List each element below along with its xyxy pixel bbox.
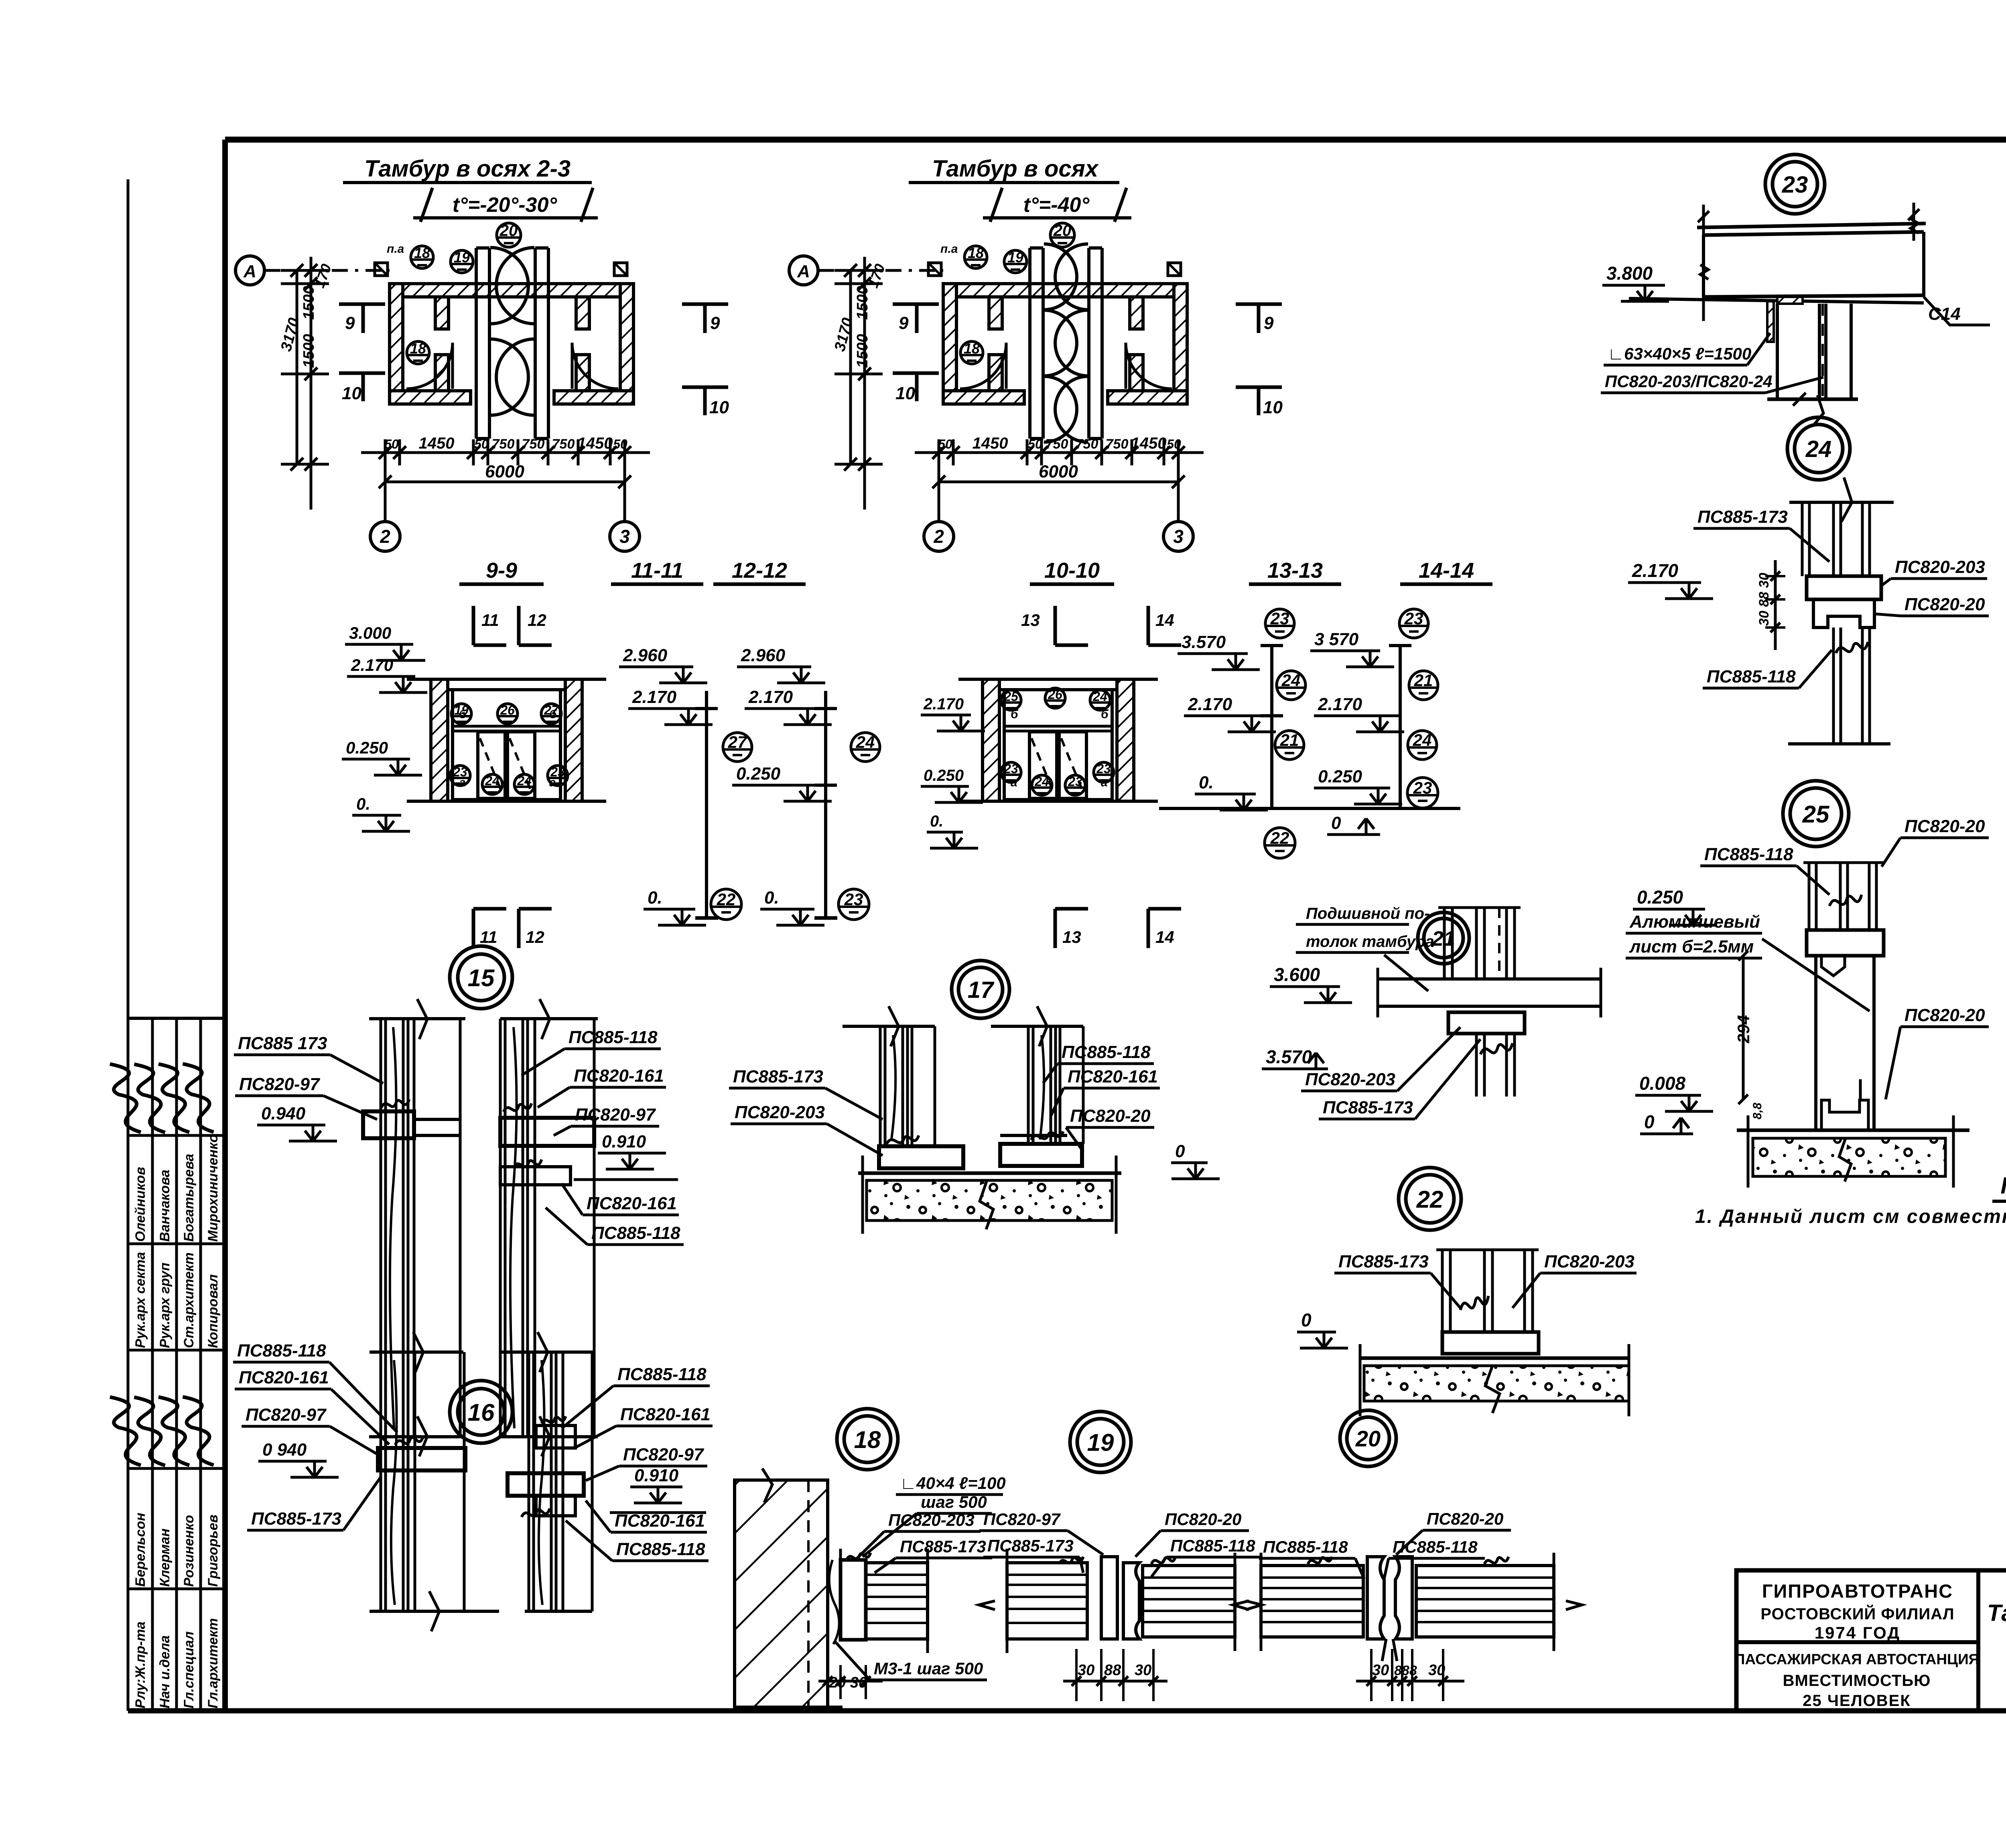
svg-text:А: А [243, 262, 256, 281]
levels 12-12 circles [760, 733, 880, 925]
detail circle 25 [1783, 781, 1849, 847]
svg-text:15: 15 [468, 965, 495, 991]
levels 12-12 [713, 558, 837, 918]
svg-text:8,8: 8,8 [1751, 1103, 1764, 1119]
svg-text:ПС885-118: ПС885-118 [1170, 1536, 1255, 1555]
svg-text:30: 30 [1372, 1662, 1389, 1679]
svg-text:19: 19 [1087, 1429, 1114, 1456]
plan circled marks [387, 222, 521, 364]
svg-text:ПС820-161: ПС820-161 [574, 1066, 664, 1086]
svg-text:1500: 1500 [300, 286, 317, 320]
svg-text:∟40×4 ℓ=100: ∟40×4 ℓ=100 [900, 1474, 1006, 1493]
svg-text:11-11: 11-11 [631, 558, 683, 583]
svg-text:Тамбур в осях 2-3: Тамбур в осях 2-3 [364, 156, 571, 182]
svg-text:27: 27 [544, 703, 559, 717]
svg-text:0.008: 0.008 [1639, 1073, 1686, 1094]
svg-text:9: 9 [345, 313, 355, 333]
svg-text:п.а: п.а [387, 242, 404, 256]
svg-text:1500: 1500 [300, 334, 317, 368]
svg-text:50: 50 [384, 437, 399, 451]
svg-text:13-13: 13-13 [1267, 558, 1323, 583]
svg-text:0: 0 [1175, 1141, 1185, 1161]
svg-text:2: 2 [380, 526, 390, 547]
svg-text:20: 20 [1355, 1426, 1381, 1451]
axis anchor squares [375, 263, 627, 276]
svg-text:Примечания: Примечания [2001, 1173, 2006, 1199]
svg-text:Гл.архитект: Гл.архитект [205, 1618, 221, 1708]
svg-text:Алюминиевый: Алюминиевый [1629, 912, 1760, 932]
svg-text:0.: 0. [648, 888, 662, 908]
svg-text:27: 27 [728, 733, 747, 751]
svg-text:17: 17 [968, 977, 995, 1003]
plan vestibule axes 2-3 (t=-40) [789, 222, 1283, 551]
bottom dimension chain [361, 435, 650, 522]
svg-text:ПС820-20: ПС820-20 [1904, 816, 1985, 836]
svg-text:21: 21 [1280, 731, 1299, 749]
svg-text:Рук.арх секта: Рук.арх секта [133, 1252, 148, 1348]
svg-text:1450: 1450 [973, 435, 1008, 452]
axis circles 2 3 [924, 522, 1193, 551]
svg-text:13: 13 [1062, 928, 1081, 946]
svg-text:20: 20 [499, 222, 518, 240]
svg-text:ПС885-118: ПС885-118 [1707, 667, 1796, 686]
svg-text:0.: 0. [1199, 773, 1214, 792]
svg-text:6000: 6000 [1039, 462, 1078, 481]
svg-text:ПС820-97: ПС820-97 [575, 1105, 656, 1125]
svg-text:Копировал: Копировал [205, 1274, 221, 1348]
levels 11-11 column [619, 646, 718, 918]
detail 23 labels [1601, 263, 1990, 393]
section 10-10 title [1030, 558, 1114, 584]
title block [1736, 1570, 2006, 1711]
svg-text:ПС885-173: ПС885-173 [1338, 1252, 1429, 1271]
svg-text:1450: 1450 [1131, 435, 1167, 452]
svg-text:1500: 1500 [854, 286, 871, 320]
svg-text:11: 11 [481, 611, 499, 630]
svg-text:t°=-40°: t°=-40° [1023, 193, 1090, 217]
svg-text:10: 10 [895, 384, 915, 403]
detail 17 mullions on slab [843, 1006, 1121, 1234]
svg-text:3 570: 3 570 [1314, 630, 1359, 649]
svg-text:2.170: 2.170 [1318, 695, 1362, 714]
svg-text:Берельсон: Берельсон [133, 1513, 148, 1587]
svg-text:Мирохиниченко: Мирохиниченко [205, 1134, 221, 1242]
door jambs and leaves [406, 248, 618, 439]
svg-text:0.940: 0.940 [261, 1104, 306, 1123]
detail 21 ceiling label [1296, 905, 1434, 991]
plan walls [943, 284, 1187, 404]
svg-text:0.250: 0.250 [346, 738, 388, 757]
svg-text:Богатырева: Богатырева [181, 1154, 197, 1242]
svg-text:2.170: 2.170 [632, 687, 677, 707]
notes text line 1 [1695, 1206, 2006, 1227]
svg-text:22: 22 [1416, 1186, 1444, 1213]
svg-text:0.: 0. [930, 812, 943, 830]
svg-text:Тамбур в осях: Тамбур в осях [932, 156, 1099, 182]
detail 19 labels and dims [979, 1510, 1263, 1701]
door jambs and leaves [960, 244, 1172, 442]
svg-text:23: 23 [550, 765, 565, 779]
svg-text:23: 23 [844, 890, 863, 909]
svg-text:Ст.архитект: Ст.архитект [181, 1253, 197, 1348]
detail 21 slab and mullion [1378, 908, 1601, 1097]
svg-text:ПС885-173: ПС885-173 [987, 1536, 1074, 1555]
svg-text:Григорьев: Григорьев [205, 1515, 221, 1587]
svg-text:0.910: 0.910 [634, 1466, 679, 1485]
svg-text:1500: 1500 [854, 334, 871, 368]
svg-text:25: 25 [1802, 801, 1830, 828]
signature table [110, 1018, 225, 1711]
svg-text:750: 750 [1046, 437, 1068, 452]
svg-text:19: 19 [1007, 249, 1023, 266]
svg-text:Олейников: Олейников [133, 1167, 148, 1242]
svg-text:ПС885-173: ПС885-173 [251, 1509, 341, 1529]
svg-text:16: 16 [468, 1399, 495, 1426]
svg-text:2.170: 2.170 [923, 695, 964, 713]
svg-text:19: 19 [454, 249, 470, 266]
levels 11-11 title [611, 558, 703, 584]
svg-text:0.910: 0.910 [602, 1132, 646, 1151]
svg-text:ПС885-173: ПС885-173 [1323, 1098, 1413, 1117]
svg-text:3: 3 [619, 526, 630, 547]
svg-text:24: 24 [1034, 774, 1049, 789]
svg-text:18: 18 [410, 340, 426, 357]
detail circle 23 [1765, 154, 1825, 214]
bottom dimension chain [915, 435, 1204, 522]
svg-text:6000: 6000 [485, 462, 524, 481]
levels 12-12 column [732, 646, 837, 918]
svg-text:888: 888 [1394, 1663, 1417, 1678]
svg-text:10: 10 [1263, 398, 1283, 417]
svg-text:0: 0 [1301, 1310, 1312, 1330]
svg-text:50: 50 [938, 437, 952, 451]
svg-text:24: 24 [1413, 731, 1432, 749]
svg-text:t°=-20°-30°: t°=-20°-30° [453, 193, 558, 217]
svg-text:30 88 30: 30 88 30 [1756, 573, 1772, 626]
section cut marks 9 and 10 [339, 304, 729, 417]
svg-text:0.250: 0.250 [1637, 887, 1683, 908]
detail 18 wall [735, 1468, 843, 1707]
svg-text:19: 19 [454, 703, 469, 717]
svg-text:ПАССАЖИРСКАЯ АВТОСТАНЦИЯ: ПАССАЖИРСКАЯ АВТОСТАНЦИЯ [1734, 1651, 1980, 1667]
section 10-10 circled marks [1001, 687, 1114, 795]
svg-text:ВМЕСТИМОСТЬЮ: ВМЕСТИМОСТЬЮ [1783, 1672, 1931, 1690]
svg-text:0.250: 0.250 [1318, 767, 1362, 786]
svg-text:18: 18 [414, 245, 430, 261]
svg-text:п.а: п.а [940, 242, 958, 256]
svg-text:ПС820-161: ПС820-161 [587, 1194, 677, 1213]
svg-text:Клерман: Клерман [157, 1529, 173, 1587]
svg-text:18: 18 [968, 245, 984, 261]
svg-text:750: 750 [1076, 437, 1098, 452]
svg-text:2.960: 2.960 [741, 646, 786, 665]
svg-text:1450: 1450 [577, 435, 613, 452]
svg-text:18: 18 [964, 340, 980, 357]
svg-text:2.170: 2.170 [1188, 695, 1232, 714]
detail 18 labels [818, 1474, 1006, 1699]
svg-text:23: 23 [1003, 762, 1018, 776]
detail circle 21 [1418, 912, 1469, 964]
svg-text:30: 30 [1135, 1662, 1151, 1679]
detail 25 mullion and panel [1737, 863, 1969, 1188]
plan 1 title [343, 156, 598, 222]
svg-text:750: 750 [552, 437, 575, 452]
svg-text:ПС820-97: ПС820-97 [623, 1445, 705, 1464]
svg-text:20 30: 20 30 [828, 1674, 867, 1691]
detail circle 16 [450, 1381, 512, 1443]
svg-text:ПС820-20: ПС820-20 [1070, 1106, 1151, 1126]
svg-text:ПС820-97: ПС820-97 [246, 1405, 327, 1425]
svg-text:24: 24 [1281, 671, 1301, 690]
section 10-10 cut marks [1021, 606, 1181, 948]
svg-text:3.570: 3.570 [1266, 1046, 1312, 1067]
svg-text:9: 9 [710, 313, 720, 333]
detail circle 20 [1340, 1410, 1396, 1466]
svg-text:РОСТОВСКИЙ ФИЛИАЛ: РОСТОВСКИЙ ФИЛИАЛ [1760, 1604, 1954, 1623]
svg-text:24: 24 [517, 774, 532, 788]
detail 19 assembly [979, 1549, 1262, 1653]
svg-text:ПС820-97: ПС820-97 [983, 1510, 1061, 1529]
svg-text:ПС885-118: ПС885-118 [237, 1341, 326, 1361]
detail 16 labels [233, 1341, 713, 1561]
detail 21 levels and labels [1262, 964, 1480, 1119]
plan title texts [0, 0, 0, 0]
svg-text:1. Данный лист см совместн: 1. Данный лист см совместно с листами АР… [1695, 1206, 2006, 1227]
section 9-9 cut marks [473, 606, 552, 948]
svg-text:14: 14 [1155, 611, 1174, 630]
svg-text:ПС820-203: ПС820-203 [1544, 1252, 1634, 1271]
svg-text:20: 20 [1053, 222, 1072, 240]
svg-text:ПС885-173: ПС885-173 [900, 1537, 986, 1556]
svg-text:ПС885-118: ПС885-118 [1393, 1537, 1478, 1556]
svg-text:ПС820-203/ПС820-24: ПС820-203/ПС820-24 [1605, 372, 1773, 391]
svg-text:Рук.арх груп: Рук.арх груп [157, 1263, 173, 1348]
svg-text:0: 0 [1331, 813, 1341, 833]
svg-text:23: 23 [1270, 609, 1289, 628]
svg-text:ПС820-20: ПС820-20 [1904, 595, 1985, 614]
svg-text:ПС820-161: ПС820-161 [239, 1368, 329, 1387]
svg-text:50: 50 [1028, 437, 1042, 451]
sheet border frame [128, 137, 2006, 1711]
svg-text:ПС885-118: ПС885-118 [591, 1223, 680, 1243]
detail 20 labels and dims [1259, 1509, 1511, 1701]
detail 22 mullion and floor [1360, 1250, 1629, 1416]
svg-text:0.250: 0.250 [924, 767, 964, 784]
svg-text:26: 26 [1048, 687, 1062, 702]
svg-text:3.570: 3.570 [1182, 632, 1226, 652]
svg-text:13: 13 [1021, 611, 1040, 630]
svg-text:750: 750 [492, 437, 515, 452]
svg-text:Нач и.дела: Нач и.дела [157, 1635, 173, 1708]
detail 25 labels [1626, 816, 1989, 1134]
detail circle 22 [1399, 1168, 1461, 1230]
svg-text:ПС820-203: ПС820-203 [735, 1103, 825, 1122]
detail circle 19 [1070, 1411, 1131, 1472]
svg-text:ПС820-203: ПС820-203 [888, 1511, 975, 1529]
svg-text:14: 14 [1155, 928, 1174, 946]
plan 2 title [909, 156, 1131, 222]
svg-text:ПС885-118: ПС885-118 [616, 1539, 705, 1559]
detail 24 mullion [1788, 477, 1894, 744]
svg-text:24: 24 [1092, 689, 1107, 704]
vertical dimension chain [831, 257, 888, 510]
plan circled marks [940, 222, 1074, 364]
detail 18 jamb assembly [829, 1549, 928, 1653]
svg-text:12: 12 [528, 611, 546, 630]
plan walls [390, 284, 633, 404]
svg-text:0.: 0. [764, 888, 779, 908]
axis A circle [789, 256, 943, 285]
svg-text:24: 24 [1805, 436, 1832, 462]
svg-text:88: 88 [1104, 1662, 1121, 1679]
axis circles 2 3 [370, 522, 640, 551]
svg-text:ПС885 173: ПС885 173 [238, 1034, 327, 1053]
svg-text:ПС885-173: ПС885-173 [1697, 507, 1788, 527]
svg-text:10: 10 [709, 398, 729, 417]
detail 22 labels [1297, 1252, 1636, 1348]
svg-text:2.170: 2.170 [351, 656, 393, 674]
svg-text:Розиненко: Розиненко [181, 1515, 197, 1587]
svg-text:10-10: 10-10 [1044, 558, 1100, 583]
svg-text:ПС820-20: ПС820-20 [1427, 1509, 1503, 1528]
svg-text:ПС820-20: ПС820-20 [1904, 1005, 1985, 1025]
svg-text:9: 9 [899, 313, 909, 333]
svg-text:22: 22 [717, 890, 736, 909]
svg-text:23: 23 [1782, 172, 1808, 198]
svg-text:10: 10 [342, 384, 361, 403]
svg-text:1974 ГОД: 1974 ГОД [1815, 1623, 1900, 1642]
title block sheet name [1987, 1600, 2006, 1673]
svg-text:22: 22 [1270, 829, 1289, 847]
svg-text:24: 24 [485, 774, 499, 788]
svg-text:11: 11 [480, 928, 497, 946]
svg-text:ПС820-20: ПС820-20 [1165, 1510, 1241, 1529]
svg-text:25 ЧЕЛОВЕК: 25 ЧЕЛОВЕК [1803, 1692, 1911, 1710]
svg-text:Рлу:Ж.пр-та: Рлу:Ж.пр-та [133, 1621, 148, 1708]
section 10-10 [958, 558, 1158, 801]
svg-text:Подшивной по-: Подшивной по- [1306, 905, 1429, 922]
detail circle 15 [450, 946, 512, 1009]
detail 15 labels [234, 1028, 684, 1245]
svg-text:А: А [797, 262, 810, 281]
svg-text:23: 23 [1068, 774, 1082, 789]
levels 13-13 [1159, 558, 1420, 858]
svg-text:18: 18 [854, 1426, 881, 1453]
svg-text:0 940: 0 940 [262, 1440, 307, 1460]
detail circle 17 [952, 961, 1009, 1018]
svg-text:25: 25 [1003, 689, 1019, 704]
svg-text:ПС885-173: ПС885-173 [733, 1067, 823, 1086]
section 9-9 circled marks [450, 703, 568, 794]
svg-text:23: 23 [1096, 762, 1111, 776]
levels 14-14 [1310, 558, 1492, 835]
detail 16 mullions [370, 1332, 594, 1631]
section 9-9 body [407, 679, 606, 801]
svg-text:23: 23 [453, 765, 467, 779]
svg-text:лист б=2.5мм: лист б=2.5мм [1629, 937, 1754, 956]
detail 23 roof beam [1629, 203, 1926, 321]
svg-text:23: 23 [1413, 778, 1432, 797]
svg-text:шаг 500: шаг 500 [921, 1493, 987, 1511]
svg-text:3.800: 3.800 [1606, 263, 1653, 284]
section 9-9 level marks [342, 623, 427, 831]
section 10-10 level marks [921, 695, 985, 848]
svg-text:24: 24 [856, 733, 875, 751]
svg-text:23: 23 [1404, 609, 1423, 628]
section 9-9 [407, 558, 606, 801]
detail 24 labels and dims [1628, 507, 1989, 688]
svg-text:∟63×40×5 ℓ=1500: ∟63×40×5 ℓ=1500 [1608, 344, 1751, 363]
svg-text:ПС820-161: ПС820-161 [1068, 1067, 1158, 1086]
section 10-10 body [958, 679, 1158, 801]
levels 11-11 [611, 558, 718, 918]
svg-text:12-12: 12-12 [732, 558, 787, 583]
levels 11-11 circles [644, 733, 752, 925]
svg-text:ПС885-118: ПС885-118 [1704, 845, 1793, 864]
detail 17 labels [729, 1042, 1220, 1179]
notes heading [1992, 1173, 2006, 1201]
svg-text:3.600: 3.600 [1274, 964, 1320, 985]
detail 20 assembly [1233, 1553, 1582, 1661]
svg-text:ПС820-203: ПС820-203 [1895, 557, 1985, 577]
axis anchor squares [928, 263, 1181, 276]
svg-text:Гл.специал: Гл.специал [181, 1631, 197, 1708]
svg-text:ПС820-203: ПС820-203 [1305, 1070, 1395, 1089]
detail 23 column [1767, 301, 1858, 425]
svg-text:750: 750 [1106, 437, 1129, 452]
svg-text:ПС820-97: ПС820-97 [239, 1074, 321, 1094]
detail circle 18 [837, 1409, 898, 1470]
svg-text:ПС885-118: ПС885-118 [1263, 1537, 1348, 1556]
title block org text [1734, 1580, 1980, 1710]
svg-text:толок тамбура: толок тамбура [1306, 933, 1434, 950]
svg-text:2.170: 2.170 [748, 687, 793, 707]
svg-text:0: 0 [1644, 1111, 1655, 1132]
section 9-9 title [459, 558, 544, 584]
svg-text:12: 12 [526, 928, 544, 946]
svg-text:1450: 1450 [419, 435, 455, 452]
svg-text:30: 30 [1428, 1662, 1445, 1679]
svg-text:0.250: 0.250 [736, 764, 781, 784]
plan vestibule axes 2-3 (t=-20-30) [236, 222, 729, 551]
svg-text:3.000: 3.000 [349, 623, 391, 642]
svg-text:2: 2 [933, 526, 944, 547]
svg-text:3: 3 [1173, 526, 1184, 547]
svg-text:14-14: 14-14 [1419, 558, 1474, 583]
svg-text:50: 50 [474, 437, 489, 451]
svg-text:ПС885-118: ПС885-118 [569, 1028, 658, 1047]
svg-text:750: 750 [522, 437, 545, 452]
svg-text:Ванчакова: Ванчакова [157, 1170, 173, 1242]
svg-text:ГИПРОАВТОТРАНС: ГИПРОАВТОТРАНС [1762, 1580, 1953, 1602]
svg-text:30: 30 [1078, 1662, 1094, 1679]
svg-text:26: 26 [500, 703, 515, 717]
svg-text:9-9: 9-9 [486, 558, 517, 583]
svg-text:М3-1 шаг 500: М3-1 шаг 500 [874, 1659, 983, 1678]
svg-text:ПС820-161: ПС820-161 [615, 1511, 705, 1531]
svg-text:21: 21 [1414, 671, 1433, 690]
svg-text:Тамбур в осях 2-3: Тамбур в осях 2-3 [1987, 1600, 2006, 1626]
svg-text:9: 9 [1264, 313, 1274, 333]
detail circle 24 [1787, 417, 1850, 480]
axis A circle [236, 256, 390, 285]
svg-text:ПС885-118: ПС885-118 [1062, 1042, 1151, 1062]
svg-text:2.960: 2.960 [623, 646, 668, 665]
svg-text:ПС885-118: ПС885-118 [617, 1365, 707, 1384]
levels 12-12 title [713, 558, 806, 584]
svg-text:0.: 0. [356, 794, 370, 813]
detail 15 mullions [363, 999, 598, 1456]
